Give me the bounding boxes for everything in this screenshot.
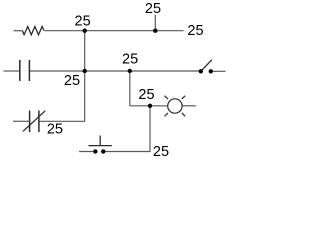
svg-text:25: 25 <box>75 14 91 30</box>
svg-text:25: 25 <box>47 122 63 138</box>
svg-text:25: 25 <box>122 52 138 68</box>
svg-text:25: 25 <box>153 144 169 160</box>
svg-text:25: 25 <box>138 87 154 103</box>
svg-text:25: 25 <box>187 23 203 39</box>
svg-text:25: 25 <box>64 73 80 89</box>
svg-text:25: 25 <box>145 1 161 17</box>
